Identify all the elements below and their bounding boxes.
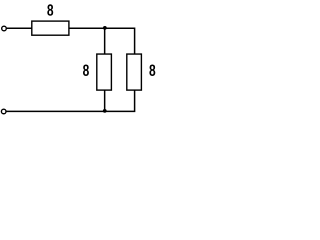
resistor R3 (right vertical box): [127, 54, 142, 90]
label: R3 value 8: [149, 64, 155, 75]
wire: bottom return from T2 to bottom-right corner, up to R3 bottom: [6, 90, 134, 111]
node B (bottom junction dot): [103, 109, 107, 113]
resistor R2 (left vertical box): [97, 54, 112, 90]
wire: node A down to R2 top: [104, 28, 106, 54]
terminal T2 (bottom input, open circle): [1, 109, 6, 114]
node A (top junction dot): [103, 26, 107, 30]
wire: R1 right lead across to top-right corner, down to R3: [69, 28, 135, 54]
terminal T1 (top input, open circle): [2, 26, 7, 31]
resistor R1 (horizontal box): [32, 21, 69, 35]
background: [0, 0, 160, 118]
label: R2 value 8: [83, 64, 89, 75]
wire: T1 to R1 left lead: [7, 27, 32, 29]
label: R1 value 8: [47, 4, 53, 15]
wire: R2 bottom down to node B: [104, 90, 106, 111]
